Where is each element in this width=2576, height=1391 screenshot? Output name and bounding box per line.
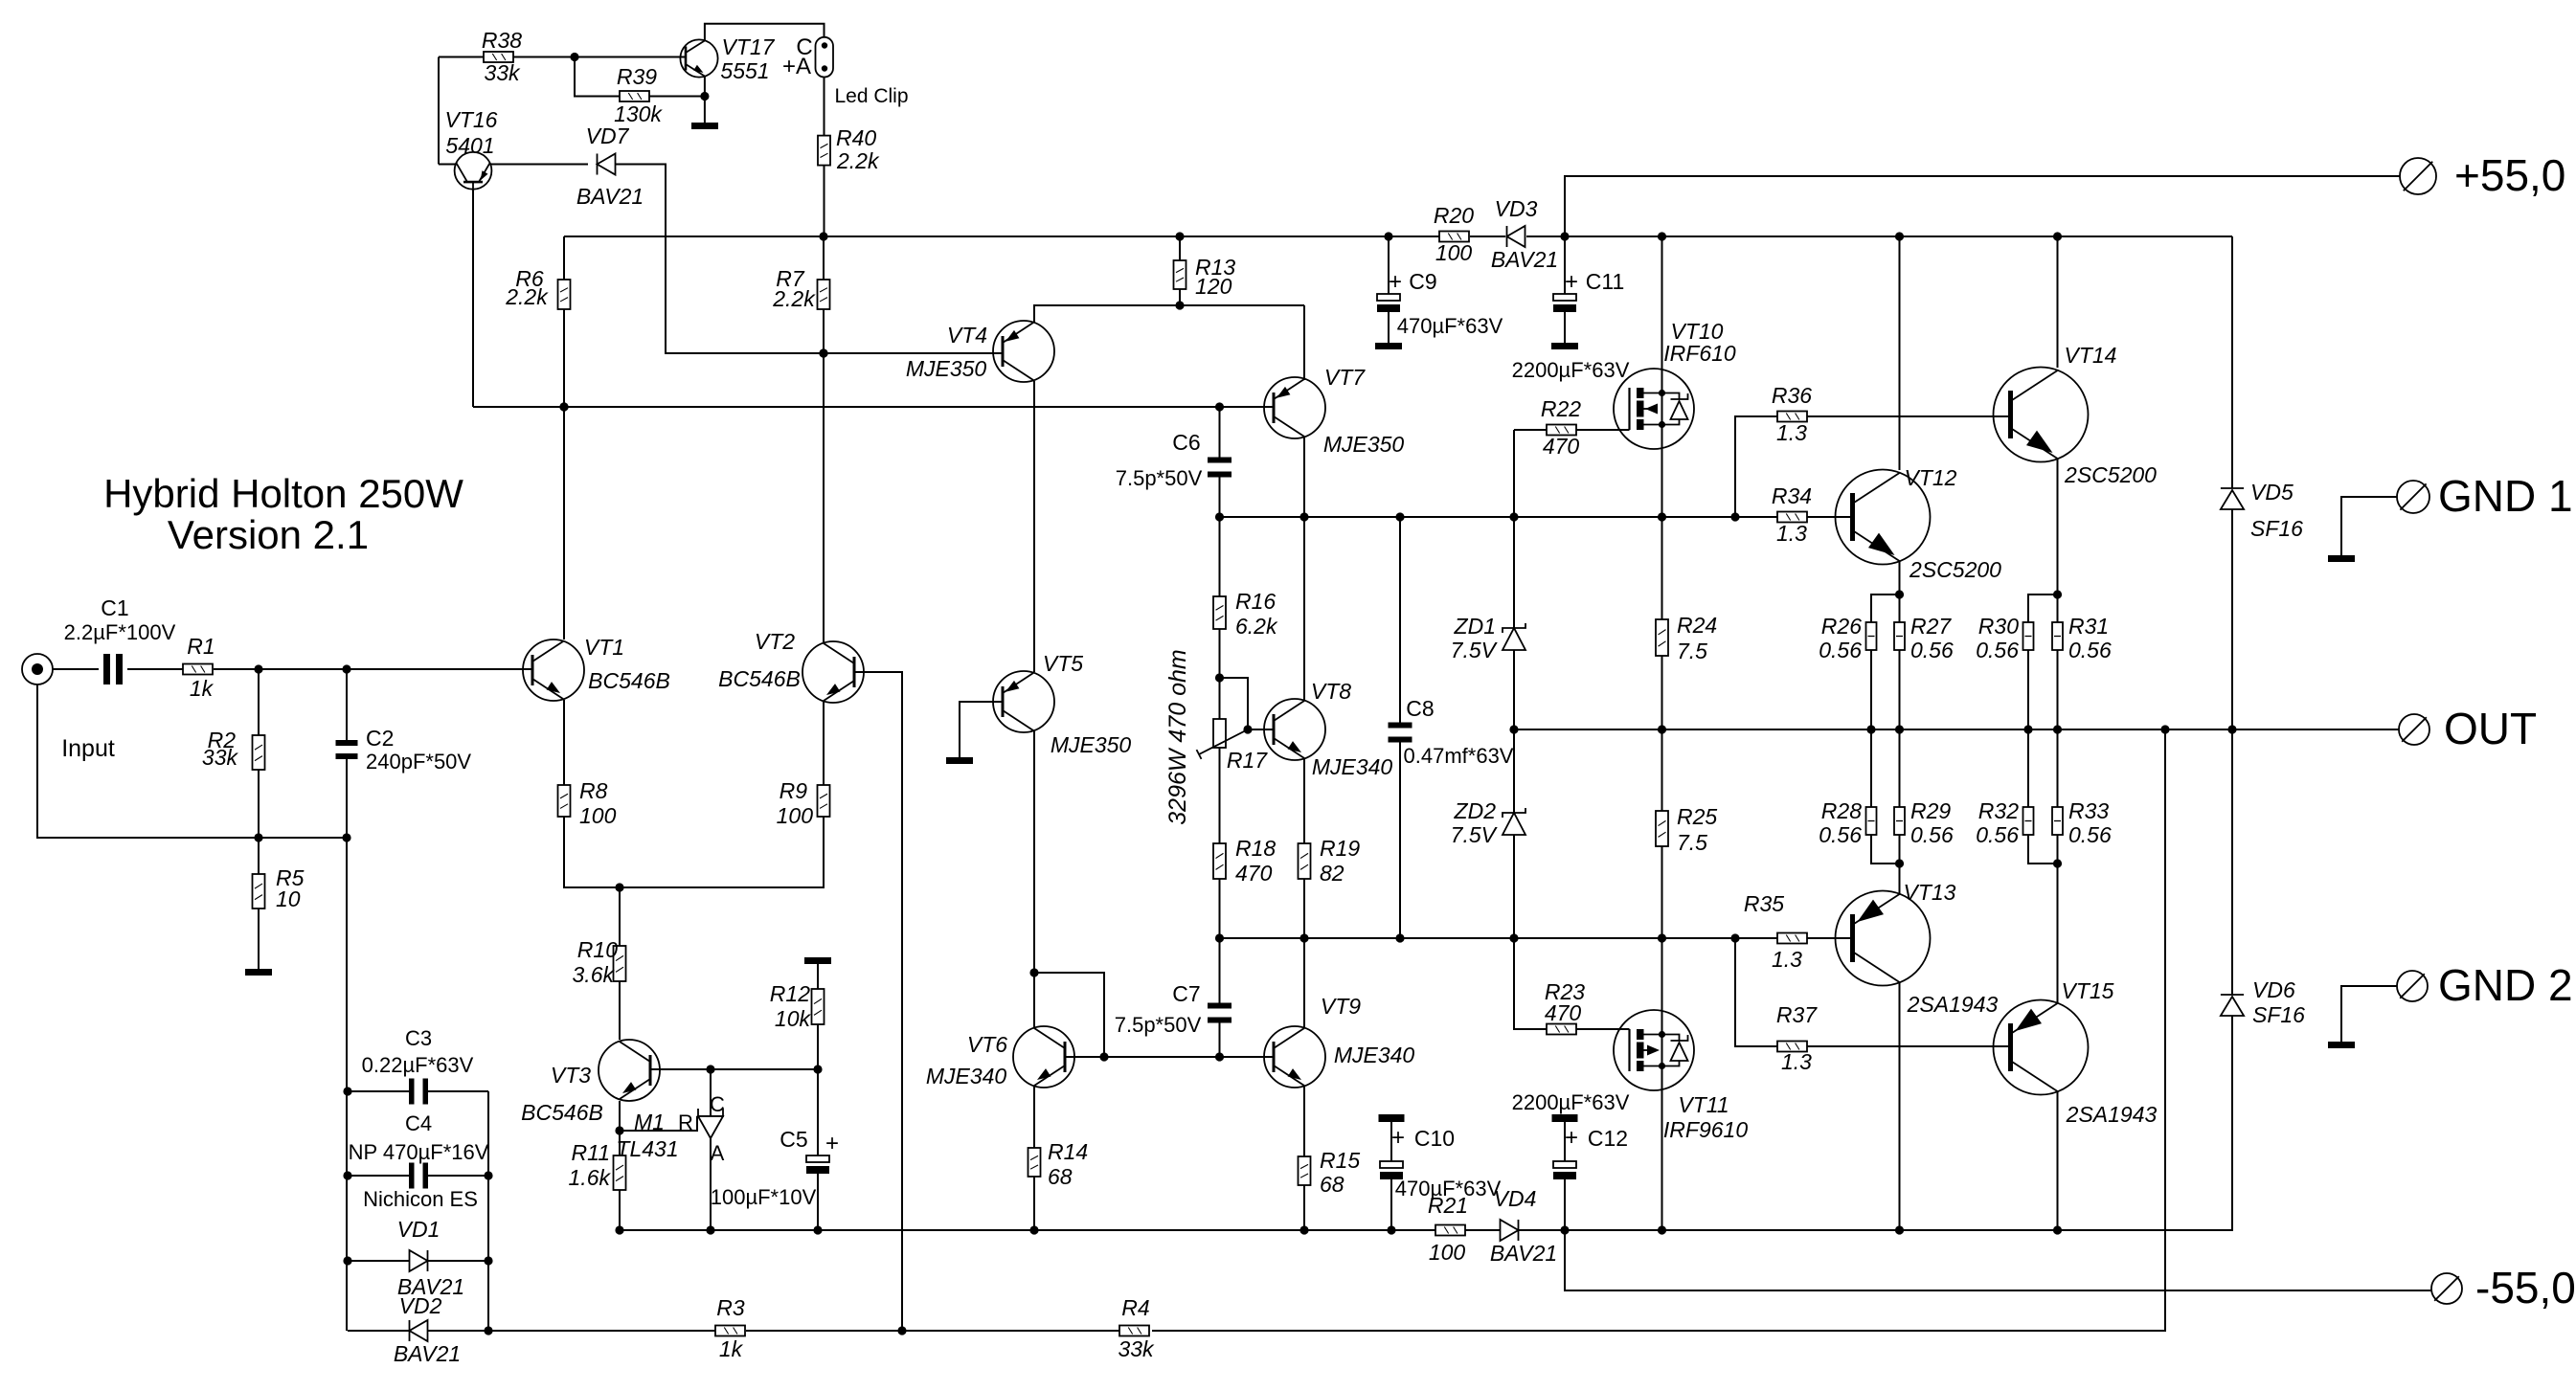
svg-text:C9: C9 <box>1409 269 1436 294</box>
svg-text:SF16: SF16 <box>2250 516 2303 541</box>
svg-text:MJE350: MJE350 <box>906 356 987 381</box>
wire VT17 collector to led <box>705 24 825 41</box>
ground VT5 base <box>946 757 973 764</box>
svg-text:R37: R37 <box>1776 1002 1818 1027</box>
resistor R26 <box>1819 614 1876 662</box>
svg-text:R35: R35 <box>1744 891 1784 916</box>
svg-text:OUT: OUT <box>2444 704 2537 753</box>
transistor VT17 <box>680 34 775 83</box>
wire R40 to top rail <box>824 166 825 236</box>
svg-text:33k: 33k <box>202 745 239 770</box>
wire R6 top to rail <box>563 236 565 280</box>
svg-text:1.6k: 1.6k <box>569 1165 612 1190</box>
svg-text:ZD2: ZD2 <box>1454 798 1497 823</box>
node VT14 emitter junction <box>2053 590 2062 598</box>
wire R37 net <box>1735 938 1777 1046</box>
transistor VT5 <box>993 651 1131 757</box>
svg-text:100: 100 <box>777 803 814 828</box>
wire C11 column <box>1564 236 1566 343</box>
wire C2 column <box>346 669 348 838</box>
ground bar C11 <box>1551 343 1578 349</box>
wire R34 to VT12 base <box>1807 516 1852 518</box>
wire left column x363 <box>343 838 351 1331</box>
svg-text:R24: R24 <box>1677 613 1717 638</box>
svg-text:2SA1943: 2SA1943 <box>1907 992 1999 1017</box>
transistor VT8 <box>1264 679 1392 779</box>
wire C6 column <box>1219 407 1221 517</box>
svg-text:ZD1: ZD1 <box>1454 614 1496 639</box>
resistor R28 <box>1819 798 1876 847</box>
svg-text:M1: M1 <box>634 1110 665 1134</box>
capacitor C10 <box>1379 1114 1502 1200</box>
terminal +55,0 <box>2400 150 2565 200</box>
resistor R40 <box>818 125 880 173</box>
transistor VT14 <box>1994 343 2158 487</box>
transistor VT2 <box>718 629 864 703</box>
wire VT13 collector <box>1899 982 1901 1230</box>
svg-text:7.5p*50V: 7.5p*50V <box>1115 1013 1202 1037</box>
svg-text:VT15: VT15 <box>2062 978 2114 1003</box>
wire R2 column <box>258 669 260 838</box>
svg-text:VT13: VT13 <box>1904 880 1956 905</box>
svg-text:C7: C7 <box>1172 981 1200 1006</box>
terminal OUT <box>2399 704 2537 753</box>
wire TL431 ref <box>620 1116 697 1131</box>
svg-text:R25: R25 <box>1677 804 1717 829</box>
capacitor C5 <box>711 1127 839 1209</box>
title text <box>103 471 463 557</box>
svg-text:R36: R36 <box>1772 383 1812 408</box>
wire VT9 collector up <box>1303 938 1305 1027</box>
ground GND2 <box>2328 1042 2355 1048</box>
wire R10 column <box>619 887 621 1040</box>
svg-text:GND 1: GND 1 <box>2438 471 2573 521</box>
wire TL431 column <box>710 1069 712 1230</box>
capacitor C11 <box>1512 269 1630 382</box>
wire R7 to VT2 collector <box>819 236 827 642</box>
svg-text:VT4: VT4 <box>947 323 987 348</box>
wire R31 column <box>2057 595 2059 729</box>
wire VT9 base line <box>1104 1052 1274 1061</box>
svg-text:100: 100 <box>1429 1240 1466 1265</box>
svg-text:VT16: VT16 <box>445 107 498 132</box>
resistor R2 <box>202 728 265 770</box>
svg-text:IRF9610: IRF9610 <box>1663 1117 1748 1142</box>
wire VT4 collector to VT5 <box>1033 381 1035 672</box>
svg-text:3296W 470 ohm: 3296W 470 ohm <box>1164 649 1191 824</box>
wire R22 feed <box>1514 430 1547 517</box>
wire VT5 collector down <box>1029 731 1038 1027</box>
svg-text:BAV21: BAV21 <box>576 184 644 209</box>
wire R32 column <box>2028 729 2058 864</box>
svg-text:VT17: VT17 <box>722 34 776 59</box>
svg-text:C11: C11 <box>1586 269 1625 294</box>
svg-text:R26: R26 <box>1821 614 1862 639</box>
svg-text:R31: R31 <box>2068 614 2109 639</box>
resistor R15 <box>1299 1148 1361 1197</box>
wire R35 to VT13 base <box>1807 937 1852 939</box>
regulator M1 TL431 <box>616 1092 725 1165</box>
svg-text:VT1: VT1 <box>584 635 624 660</box>
wire C10 column <box>1390 1122 1392 1230</box>
resistor R19 <box>1299 836 1361 886</box>
svg-text:Hybrid Holton 250W: Hybrid Holton 250W <box>103 471 463 516</box>
wire R30 to OUT <box>2027 650 2029 729</box>
wire C3 line <box>348 1090 488 1092</box>
svg-text:R22: R22 <box>1541 396 1581 421</box>
wire C4 line <box>348 1175 488 1177</box>
resistor R39 <box>614 64 663 126</box>
svg-text:GND 2: GND 2 <box>2438 960 2573 1010</box>
capacitor C8 <box>1389 696 1514 768</box>
svg-text:1.3: 1.3 <box>1772 947 1802 972</box>
wire R12 column <box>817 964 819 1069</box>
svg-text:C12: C12 <box>1588 1126 1628 1151</box>
svg-text:+55,0: +55,0 <box>2454 150 2565 200</box>
wire R5 to ground <box>258 838 260 969</box>
wire R24 column <box>1661 517 1663 729</box>
wire VT7 collector down <box>1303 437 1305 517</box>
wire VT9 emitter to R15 <box>1303 1087 1305 1156</box>
svg-text:100µF*10V: 100µF*10V <box>711 1185 817 1209</box>
transistor VT4 <box>906 321 1054 382</box>
svg-text:MJE350: MJE350 <box>1051 732 1132 757</box>
svg-text:33k: 33k <box>1118 1336 1155 1361</box>
diode VD3 <box>1491 196 1558 272</box>
svg-text:0.56: 0.56 <box>2068 822 2112 847</box>
svg-text:R18: R18 <box>1235 836 1276 861</box>
svg-text:0.56: 0.56 <box>1819 638 1862 662</box>
svg-text:2SC5200: 2SC5200 <box>2064 462 2157 487</box>
resistor R25 <box>1656 804 1717 855</box>
resistor R27 <box>1894 614 1954 662</box>
transistor VT15 <box>1994 978 2158 1127</box>
svg-text:R40: R40 <box>836 125 876 150</box>
svg-text:2.2µF*100V: 2.2µF*100V <box>64 620 176 644</box>
svg-text:R38: R38 <box>482 28 522 53</box>
svg-text:R34: R34 <box>1772 483 1812 508</box>
wire R11 to rail <box>619 1131 621 1230</box>
svg-text:R9: R9 <box>780 778 808 803</box>
svg-text:68: 68 <box>1048 1164 1073 1189</box>
svg-text:7.5: 7.5 <box>1677 830 1707 855</box>
svg-text:470: 470 <box>1235 861 1273 886</box>
svg-text:120: 120 <box>1195 274 1232 299</box>
connector Input <box>22 654 115 762</box>
svg-text:470: 470 <box>1545 1000 1582 1025</box>
wire C8 column <box>1399 517 1401 938</box>
terminal GND 1 <box>2397 471 2573 521</box>
svg-text:1.3: 1.3 <box>1776 420 1807 445</box>
svg-text:VT5: VT5 <box>1043 651 1083 676</box>
resistor R8 <box>558 778 617 828</box>
svg-text:VT6: VT6 <box>967 1032 1007 1057</box>
wire VT11 source to rail <box>1661 1090 1663 1230</box>
resistor R16 <box>1213 589 1278 639</box>
node VT3 emitter junction <box>615 1126 623 1134</box>
svg-text:R20: R20 <box>1434 203 1474 228</box>
wire C5 column <box>817 1069 819 1230</box>
svg-text:VT9: VT9 <box>1321 994 1361 1019</box>
transistor VT7 <box>1264 365 1404 457</box>
svg-text:R12: R12 <box>770 981 810 1006</box>
svg-text:0.56: 0.56 <box>1819 822 1862 847</box>
wire VD6 column <box>2231 729 2233 1230</box>
wire VT12 collector <box>1899 236 1901 470</box>
svg-text:+: + <box>1391 1125 1405 1151</box>
svg-text:VT3: VT3 <box>551 1063 591 1088</box>
svg-text:0.56: 0.56 <box>2068 638 2112 662</box>
resistor R11 <box>569 1140 626 1190</box>
svg-text:0.22µF*63V: 0.22µF*63V <box>362 1053 474 1077</box>
wire VT16 collector to R38 <box>439 164 457 166</box>
svg-text:0.47mf*63V: 0.47mf*63V <box>1404 744 1514 768</box>
wire GND2 stub <box>2341 986 2397 1042</box>
svg-text:R1: R1 <box>187 634 215 659</box>
svg-text:7.5: 7.5 <box>1677 639 1707 663</box>
resistor R13 <box>1174 255 1236 299</box>
wire led to R40 <box>824 78 825 136</box>
node VT12 emitter junction <box>1895 590 1904 598</box>
resistor R20 <box>1434 203 1474 265</box>
wire R13 column <box>1179 236 1181 305</box>
mosfet VT11 <box>1614 1010 1748 1142</box>
svg-text:R11: R11 <box>572 1140 611 1165</box>
terminal -55,0 <box>2431 1263 2576 1312</box>
wire R36 to VT14 base <box>1807 415 2010 417</box>
wire VT16-VT7 rail <box>473 402 1274 411</box>
svg-text:7.5V: 7.5V <box>1451 822 1499 847</box>
svg-text:VT8: VT8 <box>1311 679 1351 704</box>
wire VT1 emitter to R8 <box>563 700 565 785</box>
wire C7 column <box>1219 938 1221 1057</box>
resistor R1 <box>183 634 215 701</box>
capacitor C7 <box>1115 981 1232 1037</box>
resistor R21 <box>1428 1193 1468 1265</box>
svg-text:R32: R32 <box>1978 798 2019 823</box>
svg-text:IRF610: IRF610 <box>1663 341 1736 366</box>
wire VT15 emitter <box>2057 864 2059 1003</box>
transistor VT6 <box>926 1026 1074 1088</box>
transistor VT12 <box>1836 465 2002 582</box>
svg-text:C2: C2 <box>366 726 394 751</box>
wire R19 to rail <box>1303 879 1305 938</box>
transistor VT1 <box>523 635 670 701</box>
wire VD1 line <box>348 1260 488 1262</box>
wire VT10 drain <box>1661 236 1663 369</box>
diode VD1 <box>397 1217 465 1299</box>
svg-text:0.56: 0.56 <box>1976 822 2019 847</box>
resistor R38 <box>482 28 522 85</box>
svg-text:10: 10 <box>276 886 301 911</box>
svg-text:2200µF*63V: 2200µF*63V <box>1512 1090 1630 1114</box>
wire VT8 emitter to R19 <box>1303 759 1305 843</box>
wire OUT rail <box>1509 725 2399 733</box>
svg-text:R15: R15 <box>1320 1148 1360 1173</box>
ground bar C9 <box>1375 343 1402 349</box>
diode VD4 <box>1490 1186 1557 1266</box>
svg-text:2.2k: 2.2k <box>505 284 549 309</box>
wire VT6 base loop <box>1034 973 1109 1062</box>
trimmer R17 <box>1197 719 1269 773</box>
svg-text:VD4: VD4 <box>1494 1186 1537 1211</box>
wire R1 to VT1 base <box>214 664 532 673</box>
resistor R35 <box>1744 891 1807 972</box>
svg-text:0.56: 0.56 <box>1910 822 1954 847</box>
svg-text:MJE340: MJE340 <box>926 1064 1007 1088</box>
svg-text:+: + <box>1565 269 1578 295</box>
wire bias rail lower <box>1215 933 1777 942</box>
wire R38 to VT17 base <box>513 53 686 61</box>
wire R18 to rail <box>1219 879 1221 938</box>
svg-text:C3: C3 <box>405 1026 432 1050</box>
svg-text:VD3: VD3 <box>1495 196 1538 221</box>
svg-text:VD7: VD7 <box>586 123 630 148</box>
node VT15 emitter junction <box>2053 859 2062 867</box>
wire negative rail <box>615 1016 2232 1235</box>
wire bottom rail <box>348 729 2165 1335</box>
wire ZD2 column <box>1513 729 1515 938</box>
svg-text:R30: R30 <box>1978 614 2019 639</box>
wire R26 to OUT <box>1870 650 1872 729</box>
svg-text:VD5: VD5 <box>2250 480 2294 505</box>
svg-text:VD6: VD6 <box>2252 977 2295 1002</box>
wire R17 column <box>1219 678 1221 843</box>
wire VT8 collector up <box>1303 517 1305 700</box>
wire ZD1 column <box>1513 517 1515 729</box>
wire R38 left column <box>439 57 484 165</box>
wire VT13 emitter <box>1899 864 1901 895</box>
resistor R32 <box>1976 798 2033 847</box>
svg-text:Version 2.1: Version 2.1 <box>168 512 369 557</box>
svg-text:-55,0: -55,0 <box>2475 1263 2576 1312</box>
wire R14 to rail <box>1033 1177 1035 1230</box>
svg-text:R10: R10 <box>577 937 618 962</box>
wire emitters join <box>564 817 824 892</box>
resistor R10 <box>573 937 626 987</box>
svg-text:MJE340: MJE340 <box>1312 754 1393 779</box>
resistor R37 <box>1776 1002 1818 1074</box>
svg-text:470µF*63V: 470µF*63V <box>1397 314 1503 338</box>
wire VT15 collector <box>2057 1091 2059 1230</box>
wire VT16 emitter to VD7 <box>490 164 589 166</box>
diode VD5 <box>2221 480 2303 541</box>
wire right column x510 <box>484 1091 492 1331</box>
wire VD5 column <box>2231 236 2233 729</box>
resistor R34 <box>1772 483 1812 546</box>
svg-text:VT14: VT14 <box>2065 343 2117 368</box>
svg-text:0.56: 0.56 <box>1910 638 1954 662</box>
diode VD2 <box>394 1293 461 1366</box>
svg-text:7.5V: 7.5V <box>1451 638 1499 662</box>
resistor R12 <box>770 981 825 1031</box>
ground GND1 <box>2328 555 2355 562</box>
svg-text:R27: R27 <box>1910 614 1952 639</box>
wire R23 feed <box>1514 938 1547 1029</box>
svg-text:R4: R4 <box>1121 1295 1149 1320</box>
ground VT17 emitter <box>691 123 718 129</box>
diode VD7 <box>576 123 644 209</box>
svg-text:100: 100 <box>579 803 617 828</box>
wire C1 to R1 <box>127 668 183 670</box>
svg-text:VD1: VD1 <box>397 1217 441 1242</box>
svg-text:+: + <box>1565 1125 1578 1151</box>
svg-text:C: C <box>710 1092 725 1116</box>
resistor R14 <box>1028 1139 1089 1189</box>
svg-text:R17: R17 <box>1227 748 1268 773</box>
resistor R24 <box>1656 613 1717 663</box>
wire R16 column <box>1219 517 1221 678</box>
wire R22 to gate <box>1576 429 1630 431</box>
svg-text:R3: R3 <box>716 1295 745 1320</box>
svg-text:1.3: 1.3 <box>1781 1049 1812 1074</box>
svg-text:Led Clip: Led Clip <box>834 85 908 107</box>
svg-text:R29: R29 <box>1910 798 1951 823</box>
wire +55 feed <box>1565 176 2400 236</box>
svg-text:R21: R21 <box>1428 1193 1468 1218</box>
resistor R22 <box>1541 396 1581 459</box>
node R16-R17 junction <box>1215 673 1224 682</box>
svg-text:1k: 1k <box>190 676 215 701</box>
svg-text:VD2: VD2 <box>399 1293 442 1318</box>
svg-text:6.2k: 6.2k <box>1235 614 1278 639</box>
svg-text:R8: R8 <box>579 778 608 803</box>
transistor VT13 <box>1836 880 1999 1017</box>
svg-text:R28: R28 <box>1821 798 1862 823</box>
wire VT5 base to ground <box>960 702 1003 757</box>
wire VT2 emitter to R9 <box>823 702 825 785</box>
svg-text:SF16: SF16 <box>2252 1002 2305 1027</box>
svg-text:R33: R33 <box>2068 798 2109 823</box>
svg-text:0.56: 0.56 <box>1976 638 2019 662</box>
svg-text:C5: C5 <box>780 1127 807 1152</box>
svg-text:100: 100 <box>1435 240 1473 265</box>
svg-text:2.2k: 2.2k <box>772 286 816 311</box>
wire VT12 emitter <box>1899 561 1901 595</box>
svg-text:+A: +A <box>782 54 811 79</box>
wire input ground line <box>37 684 351 842</box>
svg-text:10k: 10k <box>775 1006 812 1031</box>
svg-text:R16: R16 <box>1235 589 1276 614</box>
label R17 rotated <box>1164 649 1191 824</box>
wire R39 to VT17 emitter <box>649 92 710 101</box>
svg-text:NP 470µF*16V: NP 470µF*16V <box>349 1140 489 1164</box>
svg-text:BC546B: BC546B <box>588 668 670 693</box>
svg-text:68: 68 <box>1320 1172 1344 1197</box>
diode VD6 <box>2221 977 2305 1027</box>
wire VT3 base line <box>650 1065 823 1073</box>
svg-text:+: + <box>1389 269 1402 295</box>
resistor R6 <box>505 266 570 309</box>
wire R36 net <box>1735 416 1777 517</box>
wire VT6 emitter to R14 <box>1033 1087 1035 1148</box>
svg-text:2.2k: 2.2k <box>836 148 880 173</box>
wire VT7 emitter up <box>1303 305 1305 380</box>
svg-text:+: + <box>825 1131 839 1156</box>
mosfet VT10 <box>1614 319 1736 449</box>
capacitor C9 <box>1377 269 1503 338</box>
wire bias rail upper <box>1215 512 1777 521</box>
capacitor C4 <box>349 1111 489 1211</box>
svg-text:5551: 5551 <box>720 58 769 83</box>
wire VT16 base to rail <box>472 190 474 407</box>
svg-text:A: A <box>711 1141 725 1165</box>
svg-text:VT12: VT12 <box>1905 465 1957 490</box>
svg-text:BAV21: BAV21 <box>1491 247 1558 272</box>
capacitor C3 <box>362 1026 474 1105</box>
wire VD7 to VT4 base line <box>616 165 1003 358</box>
resistor R31 <box>2052 614 2112 662</box>
